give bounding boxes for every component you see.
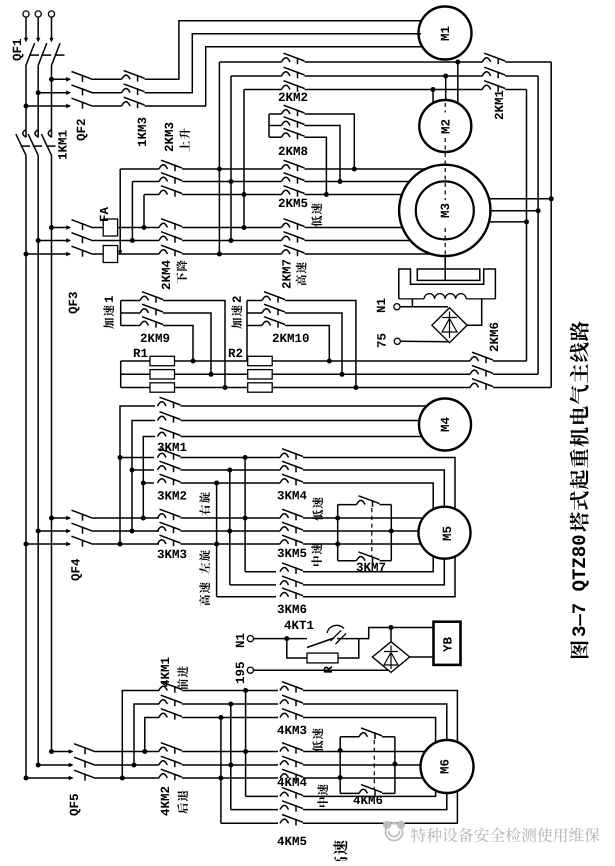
contact 2KM7 pole 1 [282, 219, 305, 230]
wire 4KM1 out row3 [182, 717, 278, 719]
junction midv-B junction 2 [227, 468, 232, 473]
wire R1 left bracket [120, 361, 122, 388]
label M5 label [443, 527, 451, 541]
junction 4KM6 j2 [338, 775, 343, 780]
wire trolley mid vertical 2 [230, 704, 232, 810]
contact 2KM6 pole 1 [470, 352, 493, 363]
wire 4KM6 top edge a [340, 736, 359, 738]
wire trolley mid vertical 1 [245, 691, 247, 797]
wire 2KM4 out row3 [182, 253, 282, 255]
wire 2KM3 row2 drop [131, 182, 133, 241]
wire trolley riser 1 [122, 691, 159, 779]
motor M4 [419, 399, 471, 451]
wire R branch left [287, 639, 307, 658]
junction bus tap QF5 r1 [49, 749, 54, 754]
label 3KM2 [158, 491, 187, 500]
diode symbol YB [384, 646, 398, 670]
wire QF2-1KM3 r2 [93, 92, 122, 94]
junction midv-C junction 3 [214, 542, 219, 547]
wire 2KM4 out row1 [182, 227, 282, 229]
terminal N1 lower [247, 636, 253, 642]
breaker pole QF5 pole 1 [69, 744, 96, 755]
tap arrow 2KM3 drop [118, 250, 122, 255]
label acc1 num [105, 296, 113, 302]
junction riser-3KM2 junction 1 [118, 455, 123, 460]
label N1 lower label [236, 634, 244, 648]
contact 4KM4 pole 2 [280, 756, 303, 767]
contact 3KM6 pole 1 [280, 563, 303, 574]
wire 2KM1 out r3 [505, 89, 526, 91]
shaft coupling dashed [444, 103, 446, 256]
wire 2KM2 row2 left [231, 75, 282, 77]
contact 3KM7 bottom [357, 552, 380, 563]
wire QF5 out r3 [96, 777, 159, 779]
wire bus x26 lower [25, 155, 27, 778]
label high speed 4KM5 [333, 840, 347, 866]
wire right vertical x538.1 [537, 76, 539, 374]
breaker pole QF4 pole 1 [66, 510, 93, 521]
contact 2KM4 pole 3 [159, 245, 182, 256]
contact 3KM3 pole 2 [158, 522, 181, 533]
junction 2KM8 drop junction 1 [352, 167, 357, 172]
wire 4KM3 out row1 [303, 691, 457, 743]
junction bus tap QF4 r3 [24, 542, 29, 547]
wire 2KM10 row2 right [285, 313, 342, 374]
contact 2KM4 pole 2 [159, 232, 182, 243]
wire 4KM2 out row2 [182, 764, 278, 766]
contact 2KM8 pole 3 [282, 128, 305, 139]
junction updown junction top 2 [229, 179, 234, 184]
wire QF5 feed r1 [52, 751, 73, 753]
contact 4KM1 pole 2 [159, 695, 182, 706]
contact 2KM9 pole 3 [140, 317, 163, 328]
wire 2KM10 row3 right [285, 326, 329, 362]
wire QF5 feed r3 [26, 777, 73, 779]
breaker pole QF2 pole 3 [66, 98, 93, 109]
label 2KM6 [490, 323, 498, 352]
breaker pole QF4 pole 2 [66, 523, 93, 534]
breaker pole QF5 pole 2 [69, 757, 96, 768]
junction midv-C junction 2 [227, 529, 232, 534]
wire 4KM2 out row3 [182, 777, 278, 779]
label 3KM4 [278, 491, 307, 500]
wire FA out r3 [118, 253, 159, 255]
wire right vertical x551.2 [550, 62, 552, 388]
contact 2KM3 pole 2 [159, 173, 182, 184]
wire QF4 out r2 [93, 530, 159, 532]
wire 2KM7 out row3 [305, 253, 432, 255]
breaker pole QF2 pole 1 [66, 72, 93, 83]
contact 2KM7 pole 3 [282, 245, 305, 256]
wire 2KM3 out row3 [182, 194, 282, 196]
junction bus tap QF4 r2 [36, 529, 41, 534]
junction drop junction r2 [130, 238, 135, 243]
contact 3KM5 pole 2 [280, 522, 303, 533]
junction midv-C junction 1 [243, 516, 248, 521]
junction midv2-D junction 3 [218, 715, 223, 720]
label watermark text [411, 828, 600, 843]
wire 2KM9 row3 left [121, 325, 140, 327]
wire 2KM8 row3 left [269, 136, 282, 138]
wire QF4 feed r3 [26, 543, 70, 545]
breaker pole QF1 pole 3 [49, 38, 64, 66]
wire 3KM1 out row2 [181, 420, 420, 422]
wire QF5 out r2 [96, 764, 159, 766]
wire M3 rotor stub y210.7 [489, 210, 538, 212]
wire 3KM6 row3 feed [217, 596, 276, 598]
breaker pole QF1 pole 1 [24, 38, 39, 66]
contact 3KM2 pole 1 [158, 449, 181, 460]
wire rotor line 2 d [493, 373, 538, 375]
brake armature [417, 269, 480, 280]
wire 3KM1 out row1 [181, 405, 428, 407]
wire QF4 out r1 [93, 517, 159, 519]
label M3 label [441, 204, 450, 218]
contact 3KM2 pole 3 [158, 474, 181, 485]
junction bus tap QF3 r2 [36, 238, 41, 243]
wire 2KM10 row1 right [285, 301, 356, 388]
label high speed 3KM6 [199, 582, 210, 605]
junction midv2-E junction 2 [228, 763, 233, 768]
contactor 4KM6 left bar [339, 737, 341, 794]
contact 3KM4 pole 3 [280, 474, 303, 485]
contact 2KM1 pole 2 [482, 67, 505, 78]
label backward [177, 790, 188, 813]
wire bus x38.2 upper [37, 65, 39, 137]
wire phase swap vertical 3 [243, 90, 245, 228]
contact 2KM1 pole 1 [482, 53, 505, 64]
wire rect top stub [390, 628, 392, 642]
label low speed 4KM3 [312, 728, 323, 752]
wire M3 rotor stub y198.8 [489, 198, 551, 200]
junction rotor junction y198.8 [549, 196, 554, 201]
breaker pole QF3 pole 3 [66, 246, 93, 257]
wire rotor line 1 b [175, 360, 248, 362]
junction bus tap QF4 r1 [49, 516, 54, 521]
wire 2KM5 out row3 [305, 194, 403, 196]
junction riser-QF4 junction 1 [118, 542, 123, 547]
wire rect right to YB [410, 656, 433, 658]
wire 3KM2 row3 feed [143, 482, 154, 484]
junction updown junction bottom 1 [217, 252, 222, 257]
wire 4KM2 out row1 [182, 751, 278, 753]
junction updown junction bottom 3 [242, 225, 247, 230]
wire QF2 feed r3 [26, 105, 70, 107]
label M4 label [441, 417, 449, 431]
label title tu [570, 641, 589, 658]
contact 2KM3 pole 1 [159, 160, 182, 171]
contactor 4KM6 right bar [394, 737, 396, 794]
wire trolley mid vertical 3 [220, 718, 222, 824]
wire supply drop L3 [51, 17, 53, 41]
thermal relay FA element 1 [103, 219, 117, 236]
contactor 3KM7 left bar [337, 505, 339, 561]
junction bus tap QF2 r1 [49, 77, 54, 82]
wire 4KM4 out row3 [303, 777, 423, 779]
wire slew mid vertical 3 [216, 483, 218, 597]
contact 4KM3 pole 3 [280, 709, 303, 720]
wire QF2-1KM3 r1 [93, 78, 122, 80]
junction midv2-E junction 1 [243, 749, 248, 754]
label left rotate [199, 550, 210, 574]
contact 2KM10 pole 3 [262, 317, 285, 328]
contact 1KM3 pole 2 [122, 84, 145, 95]
junction riser-QF5 junction 2 [132, 763, 137, 768]
breaker pole QF1 pole 2 [36, 38, 51, 66]
junction midv2-D junction 2 [228, 702, 233, 707]
wire 2KM3 row1 drop [119, 169, 121, 251]
wire 2KM2 row2 right [305, 75, 483, 77]
wire 1KM3 out r2 [145, 34, 421, 93]
motor M5 [419, 507, 471, 559]
contact 3KM3 pole 1 [158, 509, 181, 520]
wire 3KM5 out row3 [303, 543, 421, 545]
contact 3KM4 pole 1 [280, 449, 303, 460]
wire slew riser 2 [132, 421, 155, 532]
wire QF3 feed r2 [38, 240, 70, 242]
wire 4KM5 out row2 [303, 793, 447, 810]
contact 2KM8 pole 1 [282, 105, 305, 116]
wire 2KM7 out row2 [305, 240, 411, 242]
wire 2KM9 row1 left [121, 300, 140, 302]
wire rotor line 1 d [493, 360, 527, 362]
junction bus tap QF5 r2 [36, 763, 41, 768]
wire phase swap vertical 1 [218, 62, 220, 254]
wire 3KM7 top edge a [338, 504, 357, 506]
junction bus tap QF2 r3 [24, 104, 29, 109]
wire 4KM5 row3 feed [221, 822, 278, 824]
junction 2KM8 drop junction 2 [338, 179, 343, 184]
contact 2KM5 pole 3 [282, 186, 305, 197]
wire rotor line 1 a [121, 360, 150, 362]
label 4KT1 [284, 621, 313, 629]
contact 3KM6 pole 2 [280, 576, 303, 587]
wire 2KM3 out row1 [182, 168, 282, 170]
wire QF3 feed r1 [52, 227, 71, 229]
label R2 [229, 349, 242, 357]
label mid speed 3KM5 [311, 543, 322, 566]
junction updown junction bottom 2 [229, 238, 234, 243]
wire 3KM6 out row2 [303, 559, 444, 585]
junction riser-QF4 junction 2 [130, 529, 135, 534]
resistor element R2 element 2 [248, 370, 273, 379]
motor M3 outer [399, 165, 490, 256]
label 75 label [377, 334, 385, 348]
junction midv2-D junction 1 [243, 688, 248, 693]
wire 3KM4 out row2 [303, 470, 444, 507]
label 2KM8 [279, 147, 308, 155]
resistor element R1 element 2 [150, 370, 175, 379]
wire QF4 feed r1 [52, 517, 71, 519]
wire QF5 feed r2 [38, 764, 72, 766]
label R1 [134, 349, 148, 357]
wire 3KM5 out row2 [303, 530, 419, 532]
wire N1 wire [400, 306, 448, 308]
wire 4KM5 out row1 [303, 790, 436, 796]
wire 1KM3 out r3 [145, 47, 421, 106]
contact 2KM2 pole 1 [282, 53, 305, 64]
wire 4KM6 top edge b [382, 736, 395, 738]
wire 4KM6 bottom edge a [340, 792, 359, 794]
wire slew mid vertical 1 [244, 458, 246, 572]
label mid speed 4KM4 [317, 784, 328, 807]
terminal 195 [247, 667, 253, 673]
wire M2 feed r3 [432, 90, 434, 103]
wire rotor line 3 b [175, 387, 248, 389]
contactor 3KM7 right bar [390, 505, 392, 561]
wire rotor line 3 d [493, 387, 551, 389]
wire rotor line 3 c [272, 387, 470, 389]
contact 4KM6 bottom [359, 785, 382, 796]
junction 3KM7 j3 [389, 529, 394, 534]
junction rect top junction [389, 625, 394, 630]
contact 3KM5 pole 1 [280, 509, 303, 520]
label 1KM3 [138, 118, 147, 147]
junction 2KM9 drop junction 3 [191, 359, 196, 364]
diode symbol [442, 312, 457, 339]
label 4KM6 [353, 796, 382, 804]
junction M2 tap r3 [431, 87, 436, 92]
breaker pole QF4 pole 3 [66, 536, 93, 547]
wire QF5 out r1 [96, 751, 159, 753]
contact 4KM1 pole 3 [159, 709, 182, 720]
wire 2KM2 row3 left [244, 89, 282, 91]
junction rotor junction y210.7 [536, 208, 541, 213]
breaker pole QF2 pole 2 [66, 85, 93, 96]
label 2KM7 [282, 260, 290, 288]
wire 3KM4 out row3 [303, 483, 433, 509]
wire 3KM6 row1 feed [245, 571, 276, 573]
wire 3KM4 out row1 [303, 458, 455, 509]
label 2KM4 [162, 260, 170, 289]
label 4KM1 [161, 658, 169, 687]
contact 4KM2 pole 2 [159, 756, 182, 767]
wire armature divider [444, 269, 446, 280]
label 2KM2 [279, 93, 308, 101]
junction 4KM6 j1 [338, 748, 343, 753]
wire 2KM10 row2 left [247, 312, 262, 314]
contact 4KM5 pole 3 [280, 815, 303, 826]
wire supply drop L1 [25, 17, 27, 41]
junction 2KM10 right junction 3 [327, 359, 332, 364]
contact 2KM2 pole 3 [282, 81, 305, 92]
junction 2KM10 right junction 2 [340, 372, 345, 377]
contact 4KM5 pole 2 [280, 801, 303, 812]
wire 2KM8 row2 right [305, 126, 341, 182]
resistor element R2 element 3 [248, 383, 273, 392]
wire 2KM7 out row1 [305, 227, 403, 229]
contact 1KM1 pole x26 [16, 130, 30, 156]
terminal N1 brake [394, 304, 400, 310]
label 4KM2 [161, 787, 169, 816]
junction R branch junction [284, 636, 289, 641]
contact 2KM6 pole 3 [470, 379, 493, 390]
wire 2KM10 row1 left [247, 300, 262, 302]
wire QF3-FA r2 [93, 240, 159, 242]
label M1 label [441, 27, 449, 41]
wire 2KM2 row1 left [219, 61, 281, 63]
junction riser-3KM2 junction 2 [130, 468, 135, 473]
wire bus x51.5 upper [51, 65, 53, 137]
label N1 brake label [377, 299, 385, 313]
wire 3KM6 out row3 [303, 556, 455, 596]
wire QF2 feed r1 [52, 78, 71, 80]
junction bus tap QF2 r2 [36, 90, 41, 95]
contact 1KM1 pole x51.5 [41, 130, 55, 156]
wire 2KM8 row1 right [305, 114, 355, 169]
wire QF2 feed r2 [38, 92, 70, 94]
junction riser-QF5 junction 3 [142, 749, 147, 754]
wire 3KM2 row1 feed [120, 457, 154, 459]
wire 2KM3 out row2 [182, 181, 282, 183]
contact 2KM6 pole 2 [470, 366, 493, 377]
contact 1KM3 pole 1 [122, 71, 145, 82]
thermal relay FA element 2 [103, 246, 117, 263]
label low speed 2KM5 [311, 203, 322, 227]
wire M2 feed r2 [445, 76, 447, 100]
wire 4KM5 row1 feed [246, 795, 278, 797]
wire 4KM4 out row1 [303, 751, 425, 753]
motor M2 [419, 100, 471, 152]
wire rotor line 3 a [121, 387, 150, 389]
label 195 label [236, 662, 244, 683]
3KM7 link dashed [371, 508, 373, 556]
wire rotor line 2 c [272, 373, 470, 375]
wire 4KM3 out row2 [303, 704, 447, 740]
wire trolley riser 3 [145, 718, 159, 752]
wire 2KM3 row2 feed [132, 181, 159, 183]
junction drop junction r3 [142, 225, 147, 230]
junction midv2-E junction 3 [218, 776, 223, 781]
junction 2KM9 drop junction 1 [223, 385, 228, 390]
junction bus tap QF5 r3 [24, 776, 29, 781]
wire 2KM10 left bracket [246, 301, 248, 362]
wire QF4 out r3 [93, 543, 159, 545]
wire 2KM9 left bracket [120, 301, 122, 326]
contact 4KM6 top [359, 728, 382, 739]
wire rotor line 2 a [121, 373, 150, 375]
junction bus tap QF3 r1 [49, 225, 54, 230]
wire 2KM9 row2 right [163, 313, 211, 374]
junction 2KM8 drop junction 3 [324, 192, 329, 197]
label acc1 加速 [103, 305, 114, 329]
wire 2KM1 out r2 [505, 75, 538, 77]
label 3KM3 [158, 550, 187, 559]
label 4KM3 [277, 726, 306, 735]
time relay contact 4KT1 [307, 638, 334, 648]
label R label [324, 666, 332, 673]
rectifier bridge (brake) [432, 308, 467, 343]
junction 2KM10 right junction 1 [353, 385, 358, 390]
wire 3KM3 out row1 [181, 517, 281, 519]
wire 2KM5 out row1 [305, 168, 426, 170]
wire slew mid vertical 2 [229, 470, 231, 585]
wire 3KM6 out row1 [303, 556, 433, 572]
wire QF2-1KM3 r3 [93, 105, 122, 107]
wire 4KM6 bottom edge b [382, 792, 395, 794]
label 1KM1 [58, 131, 66, 160]
contact 3KM7 top [357, 496, 380, 507]
wire 1KM3 out r1 [145, 21, 421, 80]
junction 3KM7 j2 [335, 542, 340, 547]
wire 3KM1 out row3 [181, 436, 423, 438]
contact 3KM5 pole 3 [280, 535, 303, 546]
label 2KM3 [165, 123, 174, 152]
wire 4KM1 out row2 [182, 703, 278, 705]
contact 4KM5 pole 1 [280, 788, 303, 799]
contact 2KM7 pole 2 [282, 232, 305, 243]
label low speed 3KM4 [312, 497, 323, 521]
